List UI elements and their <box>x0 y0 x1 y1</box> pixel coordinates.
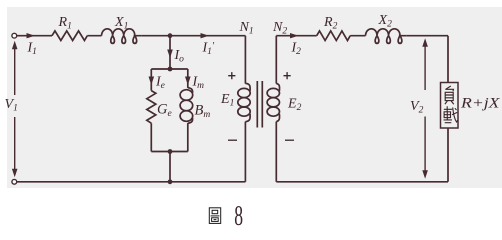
label I2 <box>291 41 302 58</box>
label N1 <box>239 20 254 37</box>
arrow I2 current arrow <box>290 33 299 38</box>
label + (E2 polarity) <box>284 72 291 79</box>
wire: left shunt branch upper lead <box>150 69 152 91</box>
inductor X1 <box>102 29 142 44</box>
schematic background panel <box>7 7 502 188</box>
node: dot on top bar <box>168 67 173 72</box>
label X2 <box>378 13 393 30</box>
label E1 <box>220 92 234 109</box>
caption glyph 圖 <box>209 208 220 224</box>
svg-text:8: 8 <box>234 201 243 232</box>
label + (E1 polarity) <box>228 72 235 79</box>
wire: bottom bar of shunt parallel pair <box>151 151 188 153</box>
node: junction dot on bottom rail <box>168 179 173 184</box>
wire: right shunt branch upper lead <box>187 69 189 88</box>
wire: left shunt branch lower lead <box>150 123 152 151</box>
wire: secondary winding top lead <box>275 36 277 84</box>
transformer primary winding <box>238 83 250 121</box>
label Ge <box>157 102 172 120</box>
label Io <box>174 48 185 65</box>
terminal: top-left input terminal <box>12 33 17 38</box>
wire: secondary winding bottom lead <box>275 122 277 182</box>
wire: top bar of shunt parallel pair <box>151 68 188 70</box>
terminal: bottom-left input terminal <box>12 179 17 184</box>
transformer core <box>257 81 262 128</box>
transformer secondary winding <box>267 83 279 121</box>
label R+jX <box>460 96 501 112</box>
label 負 (load, upper character) <box>445 86 454 104</box>
svg-text:R+jX: R+jX <box>460 96 501 112</box>
label V1 <box>5 97 18 114</box>
wire: bottom rail primary side <box>17 181 246 183</box>
label E2 <box>287 97 302 114</box>
wire: primary winding top lead <box>244 36 246 84</box>
node: dot on bottom bar <box>168 149 173 154</box>
label I1 <box>27 41 37 58</box>
arrow I1' current arrow toward N1 <box>201 33 210 38</box>
label V2 <box>410 99 424 116</box>
wire: primary winding bottom lead <box>244 122 246 182</box>
label Bm <box>195 103 211 121</box>
label X1 <box>114 15 128 32</box>
resistor R2 <box>317 31 351 41</box>
caption text 8 <box>234 201 243 232</box>
wire: bottom rail secondary side <box>276 181 448 183</box>
wire: right side down lead to load <box>447 36 449 182</box>
label - (E2 polarity) <box>285 139 294 141</box>
label 載 (load, lower character) <box>444 106 458 122</box>
label N2 <box>272 20 287 37</box>
arrow V2 voltage double arrow <box>422 38 428 179</box>
node: junction dot at top of shunt branch <box>168 33 173 38</box>
label Im <box>192 75 205 92</box>
arrow I1 current arrow on top wire <box>27 33 36 38</box>
inductor X2 <box>366 29 407 44</box>
label R2 <box>323 15 338 32</box>
wire: right shunt branch lower lead <box>187 123 189 151</box>
load box <box>441 83 459 129</box>
wire: shunt branch return to bottom rail <box>169 152 171 182</box>
resistor R1 <box>52 31 87 41</box>
arrow Io <box>167 50 173 59</box>
resistor Ge (conductance) <box>147 91 156 124</box>
label R1 <box>58 15 72 32</box>
wire: shunt branch vertical from junction <box>169 36 171 69</box>
arrow Im <box>185 77 191 86</box>
arrow Ie <box>149 77 155 86</box>
inductor Bm (magnetizing susceptance) <box>180 88 193 124</box>
arrow V1 voltage double arrow <box>12 41 18 178</box>
label I1' <box>202 41 215 58</box>
label - (E1 polarity) <box>228 139 237 141</box>
wire: top primary wire from left terminal to N1 corner <box>17 35 246 37</box>
wire: top secondary wire <box>276 35 448 37</box>
label Ie <box>155 75 165 92</box>
